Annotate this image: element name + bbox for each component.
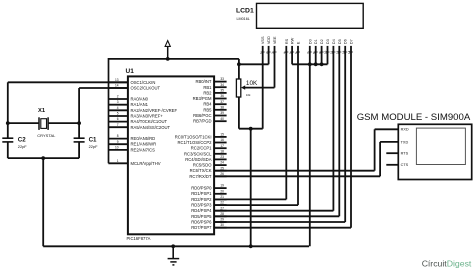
svg-text:26: 26 xyxy=(220,172,224,176)
svg-text:D7: D7 xyxy=(350,39,354,44)
pin 7 RA5/AN4/SS/C2OUT (left stub) xyxy=(108,123,170,130)
wire GSM RTS stub xyxy=(386,152,398,154)
pin 24 RC5/SDO (right stub) xyxy=(193,161,227,168)
svg-text:RC1/T1OSI/CCP2: RC1/T1OSI/CCP2 xyxy=(178,140,213,145)
svg-text:CírcuitDigest: CírcuitDigest xyxy=(422,258,472,268)
svg-text:10K: 10K xyxy=(246,80,258,87)
svg-text:RD6/PSP6: RD6/PSP6 xyxy=(191,220,212,225)
LCD pin 4 RS label xyxy=(283,38,289,54)
svg-text:40: 40 xyxy=(220,117,224,121)
wire OSC1 to crystal xyxy=(8,82,128,138)
pin 2 RA0/AN0 (left stub) xyxy=(108,95,148,102)
svg-text:4: 4 xyxy=(117,106,119,110)
node +5V branch to LCD VDD xyxy=(237,62,241,66)
svg-text:D1: D1 xyxy=(314,39,318,44)
svg-text:RD0/PSP0: RD0/PSP0 xyxy=(191,186,212,191)
svg-text:13: 13 xyxy=(115,78,119,82)
LCD pin 11 D4 label xyxy=(330,39,336,54)
LCD pin 6 E label xyxy=(294,41,300,54)
svg-text:TXD: TXD xyxy=(401,140,409,144)
node ground symbol junction xyxy=(171,244,175,248)
svg-text:6: 6 xyxy=(117,117,119,121)
node crystal left xyxy=(6,121,10,125)
svg-text:22pF: 22pF xyxy=(89,144,98,149)
node power junction xyxy=(166,57,170,61)
node crystal ground junction xyxy=(41,156,45,160)
pin 18 RC3/SCK/SCL (right stub) xyxy=(184,149,227,156)
svg-text:VDD: VDD xyxy=(267,36,271,44)
svg-text:MCLR/Vpp/THV: MCLR/Vpp/THV xyxy=(131,161,161,166)
svg-text:RA3/AN3/VREF+: RA3/AN3/VREF+ xyxy=(131,114,164,119)
svg-text:27: 27 xyxy=(220,206,224,210)
svg-text:16: 16 xyxy=(220,138,224,142)
svg-text:RC0/T1OSO/T1CKI: RC0/T1OSO/T1CKI xyxy=(175,134,212,139)
pin 25 RC6/TX/CK (right stub) xyxy=(190,166,227,173)
LCD pin 1 VSS label xyxy=(259,36,265,54)
svg-text:GSM MODULE - SIM900A: GSM MODULE - SIM900A xyxy=(357,112,471,123)
svg-text:RA5/AN4/SS/C2OUT: RA5/AN4/SS/C2OUT xyxy=(131,125,171,130)
wire +5V to MCLR left vertical xyxy=(108,58,110,163)
crystal X1 xyxy=(8,108,79,138)
svg-text:RB4: RB4 xyxy=(203,102,212,107)
pin 10 RE2/AN7/CS (left stub) xyxy=(108,146,155,153)
svg-text:35: 35 xyxy=(220,89,224,93)
svg-text:RD7/PSP7: RD7/PSP7 xyxy=(191,225,212,230)
pin 6 RA4/T0CKI/C1OUT (left stub) xyxy=(108,117,167,124)
svg-text:RC4/SDI/SDA: RC4/SDI/SDA xyxy=(185,157,212,162)
svg-text:RA4/T0CKI/C1OUT: RA4/T0CKI/C1OUT xyxy=(131,119,168,124)
svg-text:LM016L: LM016L xyxy=(237,17,250,21)
pin 20 RD1/PSP1 (right stub) xyxy=(191,189,226,196)
svg-text:24: 24 xyxy=(220,161,224,165)
svg-text:RW: RW xyxy=(291,37,295,44)
pin 22 RD3/PSP3 (right stub) xyxy=(191,201,226,208)
svg-text:14: 14 xyxy=(115,84,119,88)
wire ground rail xyxy=(43,245,309,247)
pin 13 OSC1/CLKIN (left stub) xyxy=(108,78,155,85)
svg-text:LCD1: LCD1 xyxy=(236,7,254,14)
svg-text:17: 17 xyxy=(220,144,224,148)
svg-text:9: 9 xyxy=(117,140,119,144)
wire RD2 to LCD RS xyxy=(214,46,286,200)
svg-text:21: 21 xyxy=(220,195,224,199)
LCD pin 12 D5 label xyxy=(336,39,342,54)
wire pot wiper to LCD VEE xyxy=(244,46,274,88)
wire RD3 to LCD E xyxy=(214,46,298,205)
svg-text:D3: D3 xyxy=(326,39,330,44)
svg-text:36: 36 xyxy=(220,94,224,98)
svg-text:RA0/AN0: RA0/AN0 xyxy=(131,97,149,102)
pin 38 RB5 (right stub) xyxy=(203,105,226,112)
GSM module SIM900A body xyxy=(357,112,472,180)
svg-text:RB5: RB5 xyxy=(203,107,212,112)
svg-text:RB2: RB2 xyxy=(203,90,212,95)
capacitor C2 22pF xyxy=(2,136,27,149)
svg-text:RC5/SDO: RC5/SDO xyxy=(193,163,212,168)
svg-text:25: 25 xyxy=(220,166,224,170)
svg-text:RD4/PSP4: RD4/PSP4 xyxy=(191,208,212,213)
svg-text:RB6/PGC: RB6/PGC xyxy=(193,113,211,118)
wire RD5 to LCD D5 xyxy=(214,46,339,216)
svg-text:RC3/SCK/SCL: RC3/SCK/SCL xyxy=(184,151,212,156)
svg-text:RB0/INT: RB0/INT xyxy=(195,79,211,84)
svg-text:39: 39 xyxy=(220,111,224,115)
svg-text:15: 15 xyxy=(220,133,224,137)
svg-text:D5: D5 xyxy=(338,39,342,44)
svg-text:30: 30 xyxy=(220,223,224,227)
svg-text:23: 23 xyxy=(220,155,224,159)
resistor RV1 10K potentiometer xyxy=(236,79,258,97)
svg-text:RE2/AN7/CS: RE2/AN7/CS xyxy=(131,147,156,152)
svg-text:C2: C2 xyxy=(18,136,26,143)
pin 37 RB4 (right stub) xyxy=(203,100,226,107)
svg-text:VEE: VEE xyxy=(273,36,277,44)
svg-text:RC7/RX/DT: RC7/RX/DT xyxy=(189,174,212,179)
svg-text:RA2/AN2/VREF-/CVREF: RA2/AN2/VREF-/CVREF xyxy=(131,108,178,113)
svg-text:10: 10 xyxy=(115,146,119,150)
svg-text:RC6/TX/CK: RC6/TX/CK xyxy=(190,168,212,173)
wire GSM CTS stub xyxy=(386,164,398,166)
svg-text:20: 20 xyxy=(220,189,224,193)
svg-text:2: 2 xyxy=(117,95,119,99)
pin 29 RD6/PSP6 (right stub) xyxy=(191,218,226,225)
pin 8 RE0/AN5/RD (left stub) xyxy=(108,134,155,141)
pin 15 RC0/T1OSO/T1CKI (right stub) xyxy=(175,133,227,140)
LCD pin 7 D0 label xyxy=(306,39,312,54)
pin 3 RA1/AN1 (left stub) xyxy=(108,100,148,107)
LCD pin 13 D6 label xyxy=(341,39,347,54)
pin 34 RB1 (right stub) xyxy=(203,83,226,90)
svg-text:PIC16F877A: PIC16F877A xyxy=(127,236,151,241)
svg-text:RTS: RTS xyxy=(401,152,409,156)
svg-text:RS: RS xyxy=(285,38,289,44)
svg-text:7: 7 xyxy=(117,123,119,127)
svg-text:RE0/AN5/RD: RE0/AN5/RD xyxy=(131,136,156,141)
svg-text:38: 38 xyxy=(220,105,224,109)
pin 26 RC7/RX/DT (right stub) xyxy=(189,172,226,179)
LCD pin 8 D1 label xyxy=(312,39,318,54)
pin 27 RD4/PSP4 (right stub) xyxy=(191,206,226,213)
svg-text:22pF: 22pF xyxy=(18,144,27,149)
wire OSC2 to crystal xyxy=(79,88,128,138)
svg-text:VSS: VSS xyxy=(261,36,265,44)
svg-text:RD5/PSP5: RD5/PSP5 xyxy=(191,214,212,219)
svg-text:RA1/AN1: RA1/AN1 xyxy=(131,102,149,107)
svg-text:U1: U1 xyxy=(126,68,135,75)
node bus D1 xyxy=(314,62,318,66)
svg-text:CTS: CTS xyxy=(401,163,409,167)
wire LCD VSS to ground xyxy=(239,46,263,129)
svg-text:OSC1/CLKIN: OSC1/CLKIN xyxy=(131,80,156,85)
pin 39 RB6/PGC (right stub) xyxy=(193,111,226,118)
svg-text:18: 18 xyxy=(220,149,224,153)
pin 17 RC2/CCP1 (right stub) xyxy=(191,144,227,151)
svg-text:D6: D6 xyxy=(344,39,348,44)
pin 23 RC4/SDI/SDA (right stub) xyxy=(185,155,226,162)
svg-text:RD1/PSP1: RD1/PSP1 xyxy=(191,191,212,196)
wire +5V to LCD VDD xyxy=(239,46,269,64)
capacitor C1 22pF xyxy=(74,136,98,149)
node bus D0 xyxy=(308,62,312,66)
pin 1 MCLR/Vpp/THV (left stub) xyxy=(108,159,160,166)
svg-text:D2: D2 xyxy=(320,39,324,44)
svg-text:34: 34 xyxy=(220,83,224,87)
wire RC6 TX to GSM RXD xyxy=(214,129,398,170)
svg-text:29: 29 xyxy=(220,218,224,222)
wire RD4 to LCD D4 xyxy=(214,46,333,211)
svg-text:C1: C1 xyxy=(89,136,97,143)
LCD pin 5 RW label xyxy=(288,37,294,54)
node crystal right xyxy=(77,121,81,125)
wire RD6 to LCD D6 xyxy=(214,46,345,222)
svg-text:RD3/PSP3: RD3/PSP3 xyxy=(191,203,212,208)
pin 40 RB7/PGD (right stub) xyxy=(193,117,226,124)
svg-text:OSC2/CLKOUT: OSC2/CLKOUT xyxy=(131,86,161,91)
pin 33 RB0/INT (right stub) xyxy=(195,77,226,84)
LCD pin 3 VEE label xyxy=(271,36,277,54)
svg-text:RB1: RB1 xyxy=(203,85,212,90)
power +5V arrow xyxy=(165,41,170,59)
pin 21 RD2/PSP2 (right stub) xyxy=(191,195,226,202)
pin 19 RD0/PSP0 (right stub) xyxy=(191,184,226,191)
svg-text:D0: D0 xyxy=(308,39,312,44)
svg-text:X1: X1 xyxy=(38,108,46,114)
svg-text:37: 37 xyxy=(220,100,224,104)
svg-text:33: 33 xyxy=(220,77,224,81)
svg-text:3: 3 xyxy=(117,100,119,104)
svg-text:D4: D4 xyxy=(332,39,336,44)
svg-text:1: 1 xyxy=(117,159,119,163)
node pot ground rail junction xyxy=(249,244,253,248)
wire pot ground drop xyxy=(250,129,252,247)
svg-text:RXD: RXD xyxy=(401,128,409,132)
LCD pin 9 D2 label xyxy=(318,39,324,54)
pin 36 RB3/PGM (right stub) xyxy=(193,94,227,101)
wire RD7 to LCD D7 xyxy=(214,46,351,228)
pin 9 RE1/AN6/WR (left stub) xyxy=(108,140,156,147)
ground xyxy=(168,246,180,265)
LCD pin 2 VDD label xyxy=(265,36,271,54)
node bus D2 xyxy=(320,62,324,66)
pin 14 OSC2/CLKOUT (left stub) xyxy=(108,84,160,91)
pin 35 RB2 (right stub) xyxy=(203,89,226,96)
svg-text:CRYSTAL: CRYSTAL xyxy=(37,133,56,138)
LCD pin 14 D7 label xyxy=(347,39,353,54)
pin 16 RC1/T1OSI/CCP2 (right stub) xyxy=(178,138,227,145)
microcontroller U1 PIC16F877A body xyxy=(126,68,215,241)
pin 30 RD7/PSP7 (right stub) xyxy=(191,223,226,230)
svg-text:19: 19 xyxy=(220,184,224,188)
logo CircuitDigest xyxy=(422,258,472,268)
LCD pin 10 D3 label xyxy=(324,39,330,54)
svg-text:28: 28 xyxy=(220,212,224,216)
wire LCD RW D0-D3 ground bus xyxy=(292,46,327,246)
wire capacitors to ground xyxy=(8,142,79,246)
svg-text:5: 5 xyxy=(117,112,119,116)
wire RC7 RX to GSM TXD xyxy=(214,142,398,176)
pin 5 RA3/AN3/VREF+ (left stub) xyxy=(108,112,163,119)
pin 28 RD5/PSP5 (right stub) xyxy=(191,212,226,219)
svg-text:10k: 10k xyxy=(246,93,251,97)
svg-text:8: 8 xyxy=(117,134,119,138)
svg-text:RE1/AN6/WR: RE1/AN6/WR xyxy=(131,142,157,147)
svg-text:RC2/CCP1: RC2/CCP1 xyxy=(191,146,212,151)
svg-text:RB3/PGM: RB3/PGM xyxy=(193,96,212,101)
svg-text:RB7/PGD: RB7/PGD xyxy=(193,119,211,124)
svg-text:RD2/PSP2: RD2/PSP2 xyxy=(191,197,212,202)
node pot ground junction xyxy=(249,127,253,131)
svg-text:22: 22 xyxy=(220,201,224,205)
LCD LCD1 LM016L body xyxy=(236,3,363,28)
wire +5V rail xyxy=(109,59,239,79)
pin 4 RA2/AN2/VREF-/CVREF (left stub) xyxy=(108,106,177,113)
